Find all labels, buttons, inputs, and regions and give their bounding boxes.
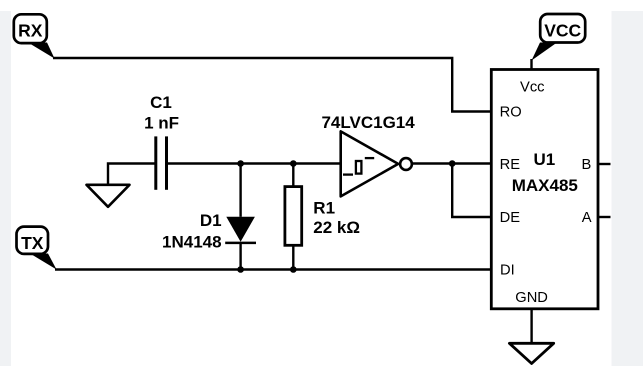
wire rail to R1 top <box>292 164 294 187</box>
svg-text:B: B <box>582 157 592 173</box>
resistor R1 <box>285 187 302 246</box>
junction node at D1 top <box>237 160 244 167</box>
svg-text:MAX485: MAX485 <box>512 176 578 195</box>
junction node R1 at TX rail <box>290 266 297 273</box>
port tag RX <box>14 14 55 58</box>
wire RX to RO pin <box>53 58 491 112</box>
svg-text:D1: D1 <box>200 211 222 230</box>
wire branch to DE pin <box>452 164 491 218</box>
pin stub B <box>598 163 611 165</box>
pin stub A <box>598 216 611 218</box>
svg-text:Vcc: Vcc <box>520 80 544 96</box>
svg-text:1N4148: 1N4148 <box>162 232 222 251</box>
port tag TX <box>17 227 57 270</box>
svg-text:DE: DE <box>500 210 521 226</box>
wire C1 to ground <box>108 164 156 185</box>
wire GND pin to ground <box>530 309 532 344</box>
junction node output branch <box>449 160 456 167</box>
ground symbol bottom <box>509 343 553 363</box>
svg-text:74LVC1G14: 74LVC1G14 <box>321 113 415 132</box>
wire R1 bottom to TX rail <box>292 245 294 269</box>
inverter output bubble <box>400 158 412 170</box>
svg-text:1 nF: 1 nF <box>144 113 179 132</box>
svg-text:U1: U1 <box>534 150 556 169</box>
capacitor C1 <box>156 136 167 189</box>
inverter U2 triangle <box>341 131 399 196</box>
diode D1 <box>225 217 256 243</box>
schmitt hysteresis symbol <box>343 158 374 175</box>
svg-text:R1: R1 <box>313 199 335 218</box>
svg-text:RO: RO <box>500 105 522 121</box>
wire D1 cathode to TX rail <box>239 243 241 270</box>
svg-text:GND: GND <box>515 290 548 306</box>
wire TX to DI pin <box>55 268 491 270</box>
port tag VCC <box>532 14 586 61</box>
wire C1 to inverter input <box>167 162 342 164</box>
wire rail to D1 anode <box>239 164 241 217</box>
wire inverter output to RE pin <box>411 162 491 164</box>
svg-text:RX: RX <box>18 20 43 40</box>
junction node D1 at TX rail <box>237 266 244 273</box>
svg-text:RE: RE <box>500 157 521 173</box>
svg-text:DI: DI <box>500 263 515 279</box>
svg-text:VCC: VCC <box>544 20 581 40</box>
svg-text:C1: C1 <box>150 93 172 112</box>
wire VCC to IC top <box>530 59 532 70</box>
junction node at R1 top <box>290 160 297 167</box>
ground symbol left <box>87 185 130 207</box>
svg-text:22 kΩ: 22 kΩ <box>313 218 360 237</box>
op-amp/IC U1 MAX485 body <box>491 70 598 309</box>
svg-text:TX: TX <box>21 233 44 253</box>
svg-text:A: A <box>582 210 592 226</box>
